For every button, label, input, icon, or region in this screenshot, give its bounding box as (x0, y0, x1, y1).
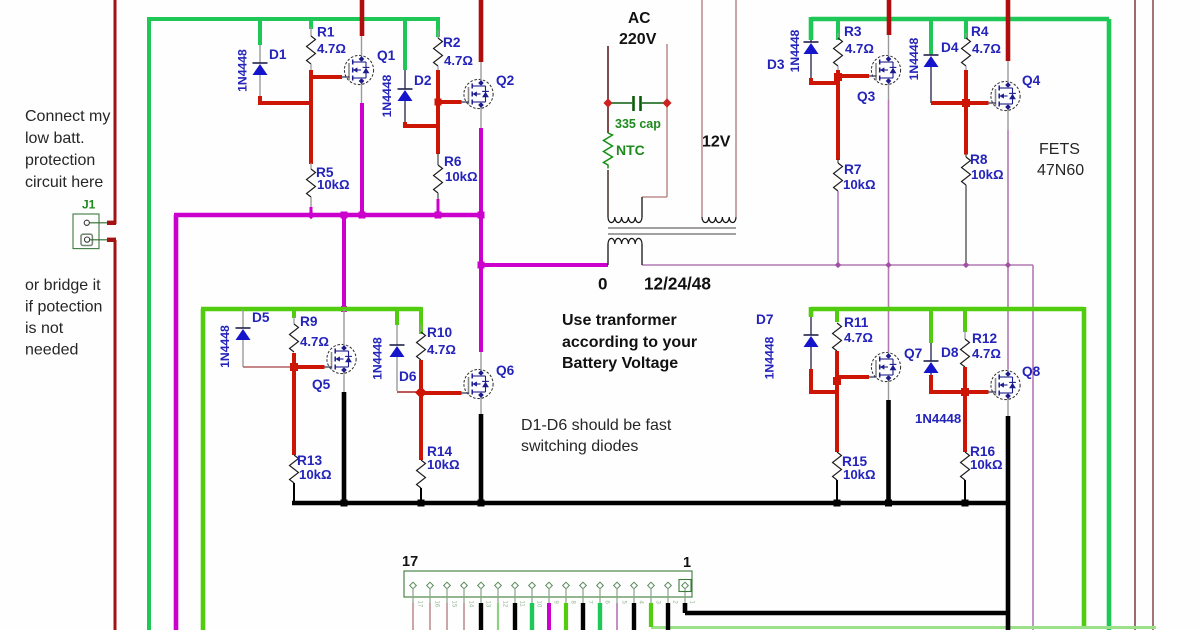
svg-text:protection: protection (25, 152, 95, 169)
svg-text:4.7Ω: 4.7Ω (317, 41, 346, 56)
svg-text:FETS: FETS (1039, 141, 1080, 158)
svg-text:47N60: 47N60 (1037, 162, 1084, 179)
svg-text:10kΩ: 10kΩ (299, 467, 332, 482)
svg-text:11: 11 (519, 601, 525, 608)
svg-text:Q1: Q1 (377, 48, 396, 63)
svg-text:Use tranformer: Use tranformer (562, 312, 677, 329)
svg-text:R4: R4 (971, 24, 989, 39)
svg-text:10: 10 (536, 601, 542, 608)
svg-text:Q7: Q7 (904, 346, 923, 361)
svg-text:R8: R8 (970, 152, 988, 167)
svg-text:10kΩ: 10kΩ (445, 169, 478, 184)
svg-text:4.7Ω: 4.7Ω (844, 330, 873, 345)
svg-text:D4: D4 (941, 40, 959, 55)
svg-text:R9: R9 (300, 314, 318, 329)
svg-text:low batt.: low batt. (25, 130, 85, 147)
svg-text:1N4448: 1N4448 (788, 29, 802, 72)
svg-text:1: 1 (683, 555, 691, 571)
svg-text:1N4448: 1N4448 (236, 49, 250, 92)
svg-text:16: 16 (434, 601, 440, 608)
svg-text:1N4448: 1N4448 (380, 74, 394, 117)
svg-text:15: 15 (451, 601, 457, 608)
svg-text:D6: D6 (399, 369, 417, 384)
svg-text:Q3: Q3 (857, 89, 876, 104)
svg-text:circuit here: circuit here (25, 174, 103, 191)
svg-text:D3: D3 (767, 57, 785, 72)
svg-text:4.7Ω: 4.7Ω (300, 334, 329, 349)
svg-text:R13: R13 (297, 453, 322, 468)
svg-text:1N4448: 1N4448 (915, 411, 961, 426)
svg-text:1N4448: 1N4448 (763, 336, 777, 379)
svg-text:1N4448: 1N4448 (218, 325, 232, 368)
svg-text:Q5: Q5 (312, 377, 331, 392)
svg-text:14: 14 (468, 601, 474, 608)
svg-text:10kΩ: 10kΩ (843, 177, 876, 192)
svg-text:needed: needed (25, 342, 78, 359)
svg-text:12/24/48: 12/24/48 (644, 274, 711, 294)
svg-text:D5: D5 (252, 310, 270, 325)
svg-text:4.7Ω: 4.7Ω (972, 41, 1001, 56)
svg-text:R7: R7 (844, 162, 862, 177)
svg-text:10kΩ: 10kΩ (971, 167, 1004, 182)
svg-text:10kΩ: 10kΩ (970, 457, 1003, 472)
svg-text:R11: R11 (844, 315, 869, 330)
svg-text:10kΩ: 10kΩ (317, 177, 350, 192)
svg-text:D1-D6 should be fast: D1-D6 should be fast (521, 417, 672, 434)
svg-text:17: 17 (417, 601, 423, 608)
svg-text:10kΩ: 10kΩ (843, 467, 876, 482)
svg-text:0: 0 (598, 275, 607, 294)
svg-text:Q4: Q4 (1022, 73, 1041, 88)
svg-text:D8: D8 (941, 345, 959, 360)
svg-text:4.7Ω: 4.7Ω (444, 53, 473, 68)
svg-text:Q8: Q8 (1022, 364, 1041, 379)
svg-text:12V: 12V (702, 134, 731, 151)
svg-text:4.7Ω: 4.7Ω (845, 41, 874, 56)
svg-text:Battery Voltage: Battery Voltage (562, 355, 678, 372)
svg-text:17: 17 (402, 554, 418, 570)
svg-text:Connect my: Connect my (25, 108, 110, 125)
svg-text:Q6: Q6 (496, 363, 515, 378)
svg-text:1N4448: 1N4448 (907, 37, 921, 80)
svg-text:R1: R1 (317, 25, 335, 40)
svg-text:R6: R6 (444, 154, 462, 169)
svg-text:D1: D1 (269, 47, 287, 62)
svg-text:4.7Ω: 4.7Ω (427, 342, 456, 357)
svg-text:4.7Ω: 4.7Ω (972, 346, 1001, 361)
svg-text:D7: D7 (756, 312, 774, 327)
svg-text:13: 13 (485, 601, 491, 608)
svg-text:or bridge it: or bridge it (25, 277, 101, 294)
svg-text:according to your: according to your (562, 334, 697, 351)
svg-text:NTC: NTC (616, 142, 645, 158)
svg-text:R3: R3 (844, 24, 862, 39)
svg-text:AC: AC (628, 10, 650, 27)
svg-text:335 cap: 335 cap (615, 117, 661, 131)
svg-text:12: 12 (502, 601, 508, 608)
svg-text:if potection: if potection (25, 299, 102, 316)
svg-text:D2: D2 (414, 73, 432, 88)
svg-text:10kΩ: 10kΩ (427, 457, 460, 472)
svg-text:220V: 220V (619, 31, 657, 48)
svg-text:Q2: Q2 (496, 73, 515, 88)
svg-text:R2: R2 (443, 35, 461, 50)
svg-text:is not: is not (25, 320, 64, 337)
svg-text:1N4448: 1N4448 (371, 337, 385, 380)
svg-text:R10: R10 (427, 325, 452, 340)
svg-text:switching diodes: switching diodes (521, 438, 638, 455)
svg-text:J1: J1 (82, 198, 96, 212)
svg-text:R12: R12 (972, 331, 997, 346)
